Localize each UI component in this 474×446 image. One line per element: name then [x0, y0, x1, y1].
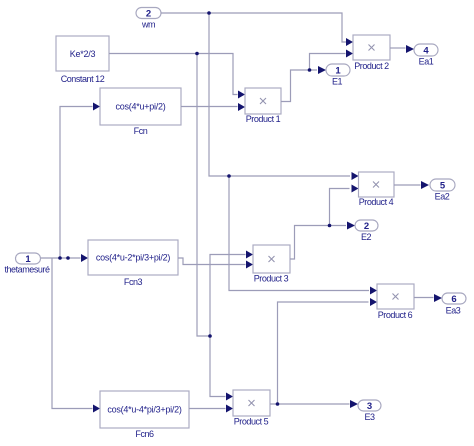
wire Product 2 out to Ea1 [390, 47, 406, 49]
wire theta branch down to Fcn6 in [52, 258, 93, 409]
svg-text:Fcn: Fcn [134, 126, 148, 136]
junction Product 3 out [328, 224, 332, 228]
arrowhead Product 6 in1 [370, 287, 377, 295]
svg-text:Product 4: Product 4 [359, 197, 394, 207]
junction wm branch 2 [227, 174, 231, 178]
fcn Fcn6 cos(4*u-4*pi/3+pi/2) [100, 391, 189, 439]
wire Fcn6 out to Product 5 in2 [189, 408, 226, 410]
outport 6 Ea3 [442, 293, 466, 316]
arrowhead E2 in [347, 222, 355, 230]
svg-text:Product 5: Product 5 [234, 417, 269, 427]
svg-text:E3: E3 [364, 412, 375, 422]
wire constant branch down [197, 54, 210, 337]
svg-text:3: 3 [367, 401, 372, 412]
arrowhead Ea2 in [421, 181, 429, 189]
wire theta main to Fcn3 in [41, 257, 81, 259]
svg-text:Ea1: Ea1 [419, 57, 434, 67]
svg-text:Product 3: Product 3 [254, 274, 289, 284]
outport 2 E2 [355, 220, 378, 242]
svg-text:thetamesuré: thetamesuré [4, 265, 50, 275]
arrowhead E1 in [318, 66, 326, 74]
junction constant branch [195, 52, 199, 56]
svg-text:2: 2 [146, 9, 151, 20]
junction Product 1 out [308, 68, 312, 72]
junction theta second [66, 256, 70, 260]
product U2 Product 2 [353, 35, 390, 71]
junction theta up [58, 256, 62, 260]
arrowhead Product 2 in1 [346, 38, 353, 46]
arrowhead Product 5 in1 [226, 393, 233, 401]
svg-text:E2: E2 [361, 232, 372, 242]
wire Product 3 branch to Product 4 in2 [330, 189, 350, 226]
svg-text:Ea3: Ea3 [446, 306, 461, 316]
arrowhead Product 3 in1 [246, 251, 253, 259]
wire constant out to Product 1 in1 [109, 54, 238, 95]
wire Product 5 out to E3 [270, 403, 350, 405]
arrowhead Product 3 in2 [246, 261, 253, 269]
wire theta branch up to Fcn in [60, 107, 93, 259]
inport 1 thetamesure [4, 253, 50, 275]
product U5 Product 5 [233, 390, 270, 427]
fcn Fcn3 cos(4*u-2*pi/3+pi/2) [88, 240, 178, 287]
product U1 Product 1 [245, 88, 281, 124]
arrowhead Ea3 in [434, 294, 442, 302]
wire wm branch down to Product 4 in1 [209, 13, 350, 176]
svg-text:cos(4*u-4*pi/3+pi/2): cos(4*u-4*pi/3+pi/2) [107, 405, 182, 415]
svg-text:Product 1: Product 1 [246, 114, 281, 124]
svg-text:wm: wm [141, 20, 155, 30]
arrowhead Product 1 in1 [238, 91, 245, 99]
outport 1 E1 [326, 64, 350, 87]
product U3 Product 3 [253, 245, 290, 284]
svg-text:cos(4*u-2*pi/3+pi/2): cos(4*u-2*pi/3+pi/2) [96, 253, 171, 263]
outport 4 Ea1 [414, 44, 438, 67]
arrowhead Product 6 in2 [370, 298, 377, 306]
svg-text:Constant 12: Constant 12 [61, 74, 105, 84]
arrowhead Fcn in [93, 103, 100, 111]
wire Fcn out to Product 1 in2 [181, 106, 238, 108]
outport 5 Ea2 [430, 179, 455, 202]
arrowhead Fcn3 in [81, 254, 88, 262]
svg-text:Product 6: Product 6 [378, 310, 413, 320]
wire constant branch to Product 3 in1 [210, 255, 246, 337]
arrowhead Product 4 in1 [352, 172, 359, 180]
wire Fcn3 out to Product 3 in2 [178, 258, 246, 265]
svg-text:Ke*2/3: Ke*2/3 [70, 49, 96, 59]
wire Product 4 out to Ea2 [394, 184, 421, 186]
wire wm branch down to Product 6 in1 [229, 176, 369, 291]
svg-text:1: 1 [335, 66, 341, 77]
constant C Ke*2/3 Constant 12 [56, 36, 109, 84]
wire Product 6 out to Ea3 [414, 297, 434, 299]
svg-text:4: 4 [423, 46, 429, 57]
arrowhead Ea1 in [406, 45, 414, 53]
svg-text:2: 2 [364, 221, 369, 232]
svg-text:E1: E1 [332, 77, 343, 87]
svg-text:Ea2: Ea2 [435, 192, 450, 202]
wire wm main to Product 2 in1 [161, 13, 346, 42]
wire Product 3 out to E2 [290, 226, 346, 260]
product U4 Product 4 [359, 172, 395, 207]
fcn Fcn cos(4*u+pi/2) [100, 88, 181, 136]
arrowhead E3 in [350, 400, 358, 408]
svg-text:cos(4*u+pi/2): cos(4*u+pi/2) [115, 102, 165, 112]
junction wm branch [207, 11, 211, 15]
product U6 Product 6 [377, 284, 414, 320]
junction Product 5 out [276, 402, 280, 406]
inport 2 wm [136, 8, 161, 30]
arrowhead Product 2 in2 [346, 50, 353, 58]
svg-text:Fcn3: Fcn3 [124, 277, 143, 287]
svg-text:Fcn6: Fcn6 [135, 429, 154, 439]
wire Product 5 branch to Product 6 in2 [278, 302, 369, 404]
svg-text:Product 2: Product 2 [354, 61, 389, 71]
arrowhead Fcn6 in [93, 405, 100, 413]
arrowhead Product 1 in2 [238, 103, 245, 111]
wire Product 1 branch to Product 2 in2 [310, 54, 346, 71]
arrowhead Product 5 in2 [226, 405, 233, 413]
svg-text:6: 6 [451, 294, 456, 305]
svg-text:1: 1 [25, 254, 31, 265]
junction constant branch low [208, 334, 212, 338]
arrowhead Product 4 in2 [352, 185, 359, 193]
wire constant branch to Product 5 in1 [210, 336, 226, 397]
svg-text:5: 5 [440, 181, 446, 192]
outport 3 E3 [358, 400, 381, 422]
wire Product 1 out to E1 [281, 70, 317, 102]
